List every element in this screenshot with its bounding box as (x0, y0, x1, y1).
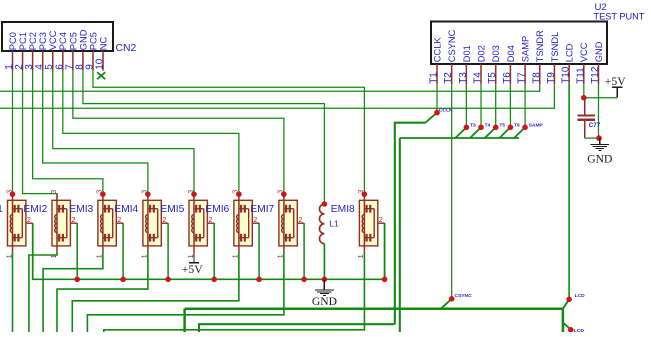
wire +5V horizontal (584, 97, 617, 99)
junction dot CSYNC (449, 296, 455, 302)
junction dot +5V/VCC (581, 95, 587, 101)
svg-text:T4: T4 (485, 123, 491, 129)
wire EMI5 pin 1 to +5V supply (193, 252, 195, 258)
wire EMI4 pin 2 drop (167, 223, 169, 279)
svg-text:D03: D03 (491, 45, 501, 62)
wire test-point bus vertical down to bottom edge (399, 138, 401, 332)
svg-text:LCD: LCD (565, 43, 575, 62)
svg-text:PC2: PC2 (28, 32, 38, 50)
svg-text:CSYNC: CSYNC (447, 29, 457, 62)
wire EMI3 pin 2 drop (122, 223, 124, 279)
wire T3 stub (465, 84, 467, 127)
svg-text:3: 3 (186, 190, 195, 194)
svg-text:PC0: PC0 (8, 32, 18, 50)
wire CN2.2 to EMI2 pin 3 (23, 71, 57, 201)
svg-text:1: 1 (276, 254, 285, 258)
svg-text:T3: T3 (458, 72, 469, 84)
svg-text:GND: GND (78, 29, 88, 50)
svg-text:VCC: VCC (579, 42, 589, 62)
connector U2 pin stubs (437, 64, 598, 84)
svg-text:3: 3 (276, 190, 285, 194)
wire EMI3 pin 1 down-left-down to bottom edge (43, 252, 103, 333)
svg-text:SAMP: SAMP (520, 36, 530, 62)
svg-text:2: 2 (209, 217, 213, 224)
wire CN2.4 to EMI4 pin 3 (43, 71, 148, 195)
svg-text:T6: T6 (514, 123, 520, 129)
EMI filter EMI8 (356, 190, 384, 259)
wire T6 stub (509, 84, 511, 127)
svg-text:T4: T4 (473, 72, 484, 84)
junction dot CCLK (434, 110, 440, 116)
wire EMI2 pin 2 drop (76, 223, 78, 279)
svg-text:L1: L1 (329, 219, 339, 229)
svg-text:3: 3 (95, 190, 104, 194)
junction dot C77/T12 GND (596, 135, 602, 141)
wire LCD bottom diagonal stub (563, 323, 571, 330)
svg-text:T7: T7 (517, 72, 528, 84)
wire CSYNC diagonal to bus (441, 299, 452, 309)
wire T4 stub (480, 84, 482, 127)
wire diagonal from T5 dot to bus (485, 127, 496, 138)
svg-text:GND: GND (594, 41, 604, 62)
wire CN2.7 to EMI7 pin 3 (73, 71, 284, 195)
svg-text:CCLK: CCLK (439, 108, 453, 114)
wire T10 LCD down (568, 84, 570, 299)
svg-text:+5V: +5V (182, 263, 203, 276)
wire EMI4 pin 1 down-left-down to bottom edge (57, 252, 148, 333)
wire LCD diagonal to bus corner (563, 299, 569, 308)
EMI filter EMI7 (276, 190, 304, 259)
svg-text:EMI1: EMI1 (0, 204, 3, 215)
svg-text:T5: T5 (487, 72, 498, 84)
svg-text:+5V: +5V (605, 75, 626, 88)
junction dot LCD (566, 297, 572, 303)
svg-text:PC1: PC1 (18, 32, 28, 50)
wire CN2.5 (VCC) to EMI5 pin 3 (53, 71, 194, 195)
svg-text:1: 1 (356, 254, 365, 258)
svg-text:EMI7: EMI7 (250, 204, 274, 215)
wire EMI7 pin 2 drop (303, 223, 305, 279)
svg-text:T3: T3 (470, 123, 476, 129)
svg-text:EMI2: EMI2 (23, 204, 47, 215)
svg-text:T6: T6 (502, 72, 513, 84)
wire T7 SAMP stub (524, 84, 526, 127)
svg-text:CN2: CN2 (116, 43, 137, 54)
wire EMI8 pin 1 down-left-down to bottom edge (104, 252, 365, 333)
svg-text:PC5: PC5 (68, 32, 78, 50)
wire bus2 left drop to bottom edge (183, 309, 186, 332)
EMI filter EMI4 (140, 190, 168, 259)
capacitor C77 (578, 98, 596, 138)
junction dot L1 top (322, 201, 328, 207)
wire EMI2 pin 1 down-left-down to bottom edge (29, 252, 57, 333)
junction dots on EMI pin2 ground bus (74, 277, 80, 283)
svg-text:D01: D01 (462, 45, 472, 62)
svg-text:T5: T5 (499, 123, 505, 129)
wire bus2 right vertical down to bottom edge (562, 309, 565, 332)
junction dots T3-T7 (464, 125, 470, 131)
svg-text:T2: T2 (443, 72, 454, 84)
svg-text:CSYNC: CSYNC (455, 293, 473, 299)
wire EMI7 pin 1 down-left-down to bottom edge (87, 252, 284, 333)
+5V supply symbol under EMI5 (189, 257, 199, 263)
junction dot LCD bottom stub (568, 327, 574, 333)
svg-text:1: 1 (95, 254, 104, 258)
svg-text:SAMP: SAMP (529, 123, 544, 129)
svg-text:EMI3: EMI3 (69, 204, 93, 215)
EMI filter EMI5 (186, 190, 214, 259)
inductor L1 (319, 204, 324, 244)
wire CN2.9 to EMI8 pin 3 (93, 71, 364, 195)
svg-text:EMI8: EMI8 (331, 204, 355, 215)
ground symbol under L1 (315, 279, 334, 296)
svg-text:1: 1 (231, 254, 240, 258)
svg-text:3: 3 (140, 190, 149, 194)
wire EMI pin2 ground bus (33, 223, 385, 279)
+5V supply symbol near U2 (612, 87, 623, 97)
svg-text:TSNDR: TSNDR (535, 30, 545, 62)
connector CN2 pin stubs (13, 51, 104, 71)
svg-text:10: 10 (95, 58, 106, 70)
svg-text:C77: C77 (589, 122, 601, 129)
svg-text:1: 1 (49, 254, 58, 258)
svg-text:PC5: PC5 (88, 32, 98, 50)
svg-text:2: 2 (162, 217, 166, 224)
svg-text:LCD: LCD (574, 328, 585, 332)
EMI filter EMI6 (231, 190, 259, 259)
svg-text:2: 2 (253, 217, 257, 224)
EMI filter EMI3 (95, 190, 123, 259)
wire T8 TSNDR horizontal to left edge (0, 84, 540, 91)
wire T12 GND down (597, 84, 599, 139)
svg-text:NC: NC (98, 36, 108, 50)
svg-text:3: 3 (356, 190, 365, 194)
wire EMI8 pin 2 drop (384, 223, 386, 279)
svg-text:2: 2 (117, 217, 121, 224)
wire C77 bottom jog to GND junction (585, 137, 600, 139)
svg-text:TEST PUNT: TEST PUNT (594, 11, 645, 21)
wire CN2.8 (GND) to L1 top (83, 71, 324, 205)
svg-text:2: 2 (27, 217, 31, 224)
svg-text:PC4: PC4 (58, 32, 68, 50)
svg-text:EMI5: EMI5 (160, 204, 184, 215)
svg-text:D02: D02 (476, 45, 486, 62)
wire T1 CCLK down to junction (436, 84, 438, 113)
connector U2 TEST PUNT body (431, 22, 607, 65)
svg-text:T11: T11 (575, 67, 586, 84)
wire EMI6 pin 2 drop (258, 223, 260, 279)
wire CN2.6 to EMI6 pin 3 (63, 71, 239, 195)
svg-text:3: 3 (4, 190, 13, 194)
no-connect cross on CN2 pin 10 (97, 72, 105, 79)
wire T11 VCC down to +5V junction (583, 84, 585, 98)
junction dot L1 bottom on bus (322, 277, 328, 283)
wire diagonal from T3 dot to bus (455, 127, 466, 138)
svg-text:2: 2 (379, 217, 383, 224)
wire EMI5 pin 2 drop (213, 223, 215, 279)
connector CN2 body (2, 22, 113, 51)
svg-text:3: 3 (231, 190, 240, 194)
svg-text:T12: T12 (590, 66, 601, 84)
svg-text:GND: GND (312, 295, 337, 308)
svg-text:PC3: PC3 (38, 32, 48, 50)
wire EMI1 pin 1 straight down to bottom edge (12, 252, 14, 333)
wire EMI6 pin 1 down-left-down to bottom edge (72, 252, 239, 333)
wire diagonal from T6 dot to bus (499, 127, 510, 138)
svg-text:LCD: LCD (575, 293, 586, 299)
EMI filter EMI2 (49, 190, 77, 259)
wire diagonal from T4 dot to bus (470, 127, 481, 138)
svg-text:1: 1 (140, 254, 149, 258)
svg-text:EMI4: EMI4 (114, 204, 138, 215)
wire T2 CSYNC down (451, 84, 453, 299)
wire CCLK diagonal (425, 113, 437, 123)
svg-text:T1: T1 (429, 72, 440, 84)
wire bus2 horizontal (CSYNC/LCD net) (185, 307, 563, 310)
wire diagonal from T7 dot to bus (514, 127, 525, 138)
wire T9 TSNDL horizontal to left edge (0, 84, 554, 108)
ground symbol under C77 (590, 138, 609, 151)
svg-text:3: 3 (49, 190, 58, 194)
svg-text:CCLK: CCLK (432, 37, 442, 63)
svg-text:2: 2 (298, 217, 302, 224)
svg-text:EMI6: EMI6 (205, 204, 229, 215)
svg-text:D04: D04 (506, 45, 516, 62)
wire test-point bus horizontal (400, 137, 519, 139)
EMI filter EMI1 (4, 190, 32, 259)
svg-text:VCC: VCC (48, 30, 58, 50)
wire T5 stub (495, 84, 497, 127)
svg-text:1: 1 (4, 254, 13, 258)
svg-text:T9: T9 (546, 72, 557, 84)
wire CCLK horizontal and long vertical down (395, 123, 426, 325)
svg-text:T8: T8 (531, 72, 542, 84)
wire L1 bottom to bus (323, 244, 325, 280)
junction dots on EMI pin 3 (10, 191, 16, 197)
svg-text:GND: GND (587, 152, 612, 165)
wire CCLK bottom line to exit (199, 324, 395, 332)
wire CN2.1 to EMI1 pin 3 (12, 71, 14, 195)
svg-text:T10: T10 (561, 66, 572, 84)
svg-text:TSNDL: TSNDL (550, 32, 560, 62)
svg-text:2: 2 (72, 217, 76, 224)
wire CN2.3 to EMI3 pin 3 (33, 71, 103, 195)
